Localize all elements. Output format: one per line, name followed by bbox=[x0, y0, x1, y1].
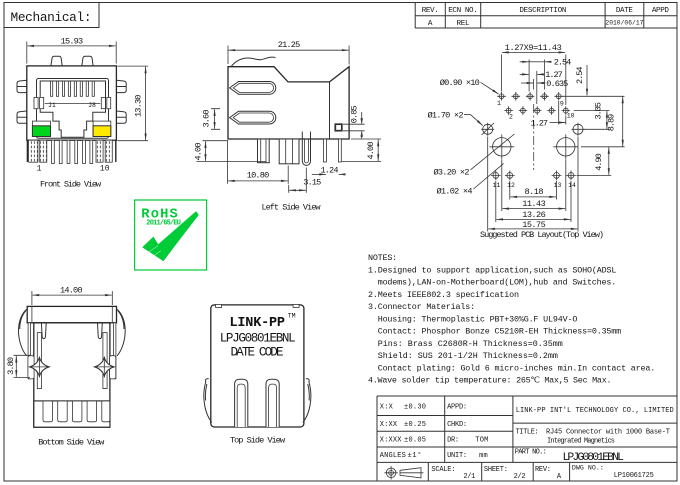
svg-text:0.85: 0.85 bbox=[350, 105, 360, 123]
extension line col1 bbox=[501, 55, 503, 92]
dim 4.00 right line bbox=[377, 140, 379, 162]
svg-text:modems),LAN-on-Motherboard(LOM: modems),LAN-on-Motherboard(LOM),hub and … bbox=[378, 278, 617, 288]
svg-text:UNIT:: UNIT: bbox=[447, 452, 467, 460]
svg-text:X:XX: X:XX bbox=[380, 421, 398, 429]
led pocket right bbox=[93, 121, 111, 136]
svg-text:NOTES:: NOTES: bbox=[368, 253, 397, 263]
svg-text:±0.30: ±0.30 bbox=[404, 403, 426, 411]
front opening bezel bbox=[37, 79, 109, 139]
svg-text:CHKD:: CHKD: bbox=[447, 421, 467, 429]
svg-text:8.18: 8.18 bbox=[525, 187, 544, 197]
svg-text:LPJG0801EBNL: LPJG0801EBNL bbox=[220, 331, 296, 345]
rail left bbox=[37, 333, 41, 389]
svg-text:LP10061725: LP10061725 bbox=[614, 472, 654, 480]
latch prong left inner bbox=[237, 384, 245, 427]
rj45 plug profile opening bbox=[40, 81, 105, 137]
projection symbol cone bbox=[400, 468, 423, 478]
dim 2.54 vertical right bbox=[586, 65, 588, 96]
svg-text:13.30: 13.30 bbox=[133, 95, 143, 118]
svg-text:4.90: 4.90 bbox=[594, 153, 604, 171]
dim 0.635 arrows bbox=[521, 82, 533, 84]
svg-text:DATE CODE: DATE CODE bbox=[231, 346, 284, 360]
projection symbol circle bbox=[384, 466, 397, 479]
small dim cluster extension lines bbox=[529, 60, 544, 105]
right wing curve bbox=[116, 309, 125, 356]
dim 3.60 line bbox=[214, 109, 216, 129]
svg-text:ANGLES: ANGLES bbox=[380, 452, 406, 460]
svg-text:A: A bbox=[428, 20, 433, 28]
svg-text:ECN NO.: ECN NO. bbox=[448, 7, 478, 15]
front body outer shell bbox=[27, 66, 117, 140]
dim 4.00 left extension lines bbox=[197, 141, 267, 162]
svg-text:4.00: 4.00 bbox=[193, 143, 203, 161]
svg-text:REV:: REV: bbox=[535, 466, 551, 474]
svg-text:LPJG0801EBNL: LPJG0801EBNL bbox=[562, 452, 624, 464]
latch prong right outer bbox=[266, 379, 279, 427]
svg-text:11.43: 11.43 bbox=[522, 199, 546, 209]
center line dash dot bbox=[533, 104, 535, 170]
rohs box bbox=[135, 200, 207, 270]
side wing left bbox=[204, 379, 212, 423]
svg-text:Ø0.90 ×10: Ø0.90 ×10 bbox=[440, 78, 480, 88]
big hole 3.20 right bbox=[553, 134, 578, 159]
svg-text:10: 10 bbox=[100, 165, 110, 174]
dim 21.25 line bbox=[229, 49, 349, 51]
comb band bbox=[34, 401, 110, 427]
svg-text:Ø1.02 ×4: Ø1.02 ×4 bbox=[437, 187, 473, 197]
svg-text:2: 2 bbox=[509, 113, 513, 120]
svg-text:13: 13 bbox=[554, 182, 562, 189]
svg-text:2/2: 2/2 bbox=[514, 473, 526, 481]
emi finger wavy line bbox=[231, 57, 275, 66]
svg-text:2.54: 2.54 bbox=[575, 66, 585, 84]
svg-text:LINK-PP: LINK-PP bbox=[230, 316, 286, 331]
svg-text:3.80: 3.80 bbox=[6, 357, 16, 375]
svg-text:LINK-PP INT'L TECHNOLOGY CO.,: LINK-PP INT'L TECHNOLOGY CO., LIMITED bbox=[516, 407, 674, 415]
svg-text:1.24: 1.24 bbox=[321, 165, 339, 175]
bottom view face band bbox=[27, 306, 116, 322]
latch slot 2 inner bbox=[233, 113, 273, 122]
svg-text:X:XXX: X:XXX bbox=[380, 437, 402, 445]
svg-text:Pins: Brass C2680R-H Thicknes: Pins: Brass C2680R-H Thickness=0.35mm bbox=[378, 339, 563, 349]
svg-text:Suggested PCB Layout(Top View): Suggested PCB Layout(Top View) bbox=[480, 230, 604, 240]
standoff block inner lines bbox=[286, 139, 293, 164]
dim 0.85 arrows bbox=[360, 118, 363, 136]
dim 1.27X9=11.43 line bbox=[502, 51, 565, 53]
svg-text:Top Side View: Top Side View bbox=[230, 435, 286, 445]
svg-text:J1: J1 bbox=[48, 102, 56, 109]
svg-text:1: 1 bbox=[37, 165, 42, 174]
extension line col10 bbox=[565, 55, 567, 106]
shield pin knurled 9 10 bbox=[96, 140, 112, 162]
svg-text:21.25: 21.25 bbox=[278, 40, 301, 50]
svg-text:±1°: ±1° bbox=[408, 451, 422, 460]
svg-text:11: 11 bbox=[493, 182, 501, 189]
star post left bbox=[30, 358, 49, 377]
svg-text:Ø1.70 ×2: Ø1.70 ×2 bbox=[428, 110, 464, 120]
dim 13.30 extension lines bbox=[117, 66, 148, 141]
front side wing lower-left bbox=[17, 111, 27, 123]
ground square bbox=[335, 124, 342, 131]
svg-text:TOM: TOM bbox=[475, 437, 488, 445]
left view body outline bbox=[228, 67, 349, 139]
dim 1.27 arrows bbox=[520, 73, 529, 75]
side latch left pair bbox=[34, 97, 38, 108]
dim 14.00 line bbox=[32, 294, 111, 296]
RoHS logo bbox=[135, 200, 207, 270]
svg-text:APPD: APPD bbox=[652, 7, 669, 15]
svg-text:X:X: X:X bbox=[380, 403, 394, 411]
top edge notch left bbox=[216, 304, 222, 307]
svg-text:1.27X9=11.43: 1.27X9=11.43 bbox=[505, 43, 562, 53]
star post left crosshair bbox=[29, 357, 50, 377]
latch prong left outer bbox=[235, 379, 248, 427]
svg-text:3.60: 3.60 bbox=[201, 110, 211, 128]
svg-text:2.54: 2.54 bbox=[554, 58, 572, 68]
star post right bbox=[95, 358, 114, 377]
svg-text:12: 12 bbox=[507, 182, 515, 189]
dim 3.80 line bbox=[15, 356, 17, 377]
svg-text:1: 1 bbox=[497, 100, 501, 107]
bottom holes 1.02 bbox=[491, 171, 576, 181]
svg-text:Ø3.20 ×2: Ø3.20 ×2 bbox=[434, 168, 470, 178]
rail right bbox=[103, 333, 107, 389]
middle pins 3-8 bbox=[52, 140, 93, 163]
rohs checkmark bbox=[142, 211, 199, 261]
svg-text:Bottom Side View: Bottom Side View bbox=[38, 437, 105, 447]
front side wing lower-right bbox=[116, 111, 126, 123]
dim 3.15 extension lines bbox=[289, 168, 307, 193]
svg-text:14.00: 14.00 bbox=[60, 285, 83, 295]
svg-text:DWG NO.:: DWG NO.: bbox=[572, 465, 604, 472]
svg-text:2010/06/17: 2010/06/17 bbox=[605, 20, 643, 27]
checkmark texture lines bbox=[148, 246, 162, 258]
shield pin knurled 1 bbox=[29, 140, 47, 162]
front side view bbox=[17, 36, 148, 189]
emi hairpin pin bbox=[302, 132, 310, 166]
8 contact pins bbox=[51, 81, 95, 96]
svg-text:8.89: 8.89 bbox=[607, 114, 617, 132]
svg-text:PART NO.:: PART NO.: bbox=[515, 449, 547, 457]
left side view bbox=[193, 40, 381, 212]
comb slots bbox=[43, 401, 110, 422]
svg-text:Integrated Magnetics: Integrated Magnetics bbox=[547, 438, 615, 446]
latch slot 1 outer bbox=[230, 82, 276, 95]
title block grid bbox=[377, 396, 677, 481]
svg-text:4.Wave solder tip temperature:: 4.Wave solder tip temperature: 265℃ Max,… bbox=[368, 376, 612, 386]
green LED bbox=[32, 126, 50, 137]
svg-text:10.80: 10.80 bbox=[247, 170, 270, 180]
rev table grid lines bbox=[415, 3, 677, 29]
svg-text:Left Side View: Left Side View bbox=[262, 203, 322, 213]
svg-text:Shield: SUS 201-1/2H Thicknes: Shield: SUS 201-1/2H Thickness=0.2mm bbox=[378, 351, 558, 361]
latch prong right inner bbox=[269, 384, 277, 427]
dim 21.25 extension lines bbox=[228, 46, 349, 65]
hole 1.70 right bbox=[572, 123, 585, 136]
svg-text:DATE: DATE bbox=[616, 7, 633, 15]
svg-text:REL: REL bbox=[457, 20, 470, 28]
svg-text:±0.25: ±0.25 bbox=[404, 421, 426, 429]
Mechanical title box bbox=[4, 3, 99, 28]
top edge notch right bbox=[293, 304, 299, 307]
svg-text:±0.05: ±0.05 bbox=[404, 437, 426, 445]
svg-text:DESCRIPTION: DESCRIPTION bbox=[519, 7, 566, 15]
latch slot 1 inner bbox=[233, 83, 273, 92]
dim 3.60 extension ticks bbox=[211, 109, 220, 130]
notes bbox=[368, 253, 655, 386]
dim 10.80 extension lines bbox=[228, 141, 289, 184]
svg-text:SHEET:: SHEET: bbox=[484, 466, 508, 474]
svg-text:2/1: 2/1 bbox=[463, 473, 475, 481]
dim 15.93 extension lines bbox=[27, 42, 116, 64]
bottom dims extension lines bbox=[488, 137, 578, 232]
svg-text:1.27: 1.27 bbox=[531, 118, 549, 128]
through pin 2 bbox=[338, 139, 341, 162]
slash through left 1.70 hole bbox=[482, 123, 495, 135]
side wing right bbox=[303, 379, 311, 423]
led pocket left bbox=[32, 121, 50, 136]
svg-text:J8: J8 bbox=[88, 102, 96, 109]
svg-text:Contact plating: Gold 6 micro-: Contact plating: Gold 6 micro-inches min… bbox=[378, 363, 656, 373]
front side wing upper-left bbox=[17, 80, 27, 92]
dim 1.24 lines bbox=[312, 173, 326, 175]
side tab left bbox=[28, 356, 34, 379]
top view body bbox=[211, 305, 304, 427]
side pin right bbox=[114, 323, 116, 379]
svg-text:RJ45 Connector with 1000 Base-: RJ45 Connector with 1000 Base-T bbox=[546, 428, 670, 436]
svg-text:15.93: 15.93 bbox=[61, 36, 84, 46]
dim 4.00 right extension lines bbox=[342, 139, 381, 162]
front top tab right bbox=[82, 56, 93, 66]
through pin 1 bbox=[324, 139, 327, 162]
svg-text:14: 14 bbox=[568, 182, 576, 189]
svg-text:2.Meets IEEE802.3 specificatio: 2.Meets IEEE802.3 specification bbox=[368, 290, 519, 300]
upper hole row bbox=[497, 92, 563, 101]
dim 0.85 line bbox=[361, 112, 363, 139]
dim 2.54 line bbox=[520, 61, 529, 63]
svg-text:SCALE:: SCALE: bbox=[431, 466, 455, 474]
dim 15.93 line bbox=[27, 45, 115, 47]
yellow LED bbox=[93, 126, 111, 137]
svg-text:9: 9 bbox=[560, 100, 564, 107]
dim 3.80 extension lines bbox=[14, 355, 31, 377]
svg-text:1.Designed to support applicat: 1.Designed to support application,such a… bbox=[368, 265, 616, 275]
standoff block bbox=[279, 139, 299, 164]
side latch right pair bbox=[101, 97, 105, 108]
latch slot 2 outer bbox=[230, 111, 276, 124]
hole 1.70 left bbox=[481, 123, 494, 136]
front side wing upper-right bbox=[116, 80, 126, 92]
lower hole row bbox=[504, 106, 570, 115]
left wing curve bbox=[18, 309, 27, 356]
bottom view main body bbox=[34, 323, 110, 427]
svg-text:A: A bbox=[557, 473, 562, 481]
svg-text:10: 10 bbox=[567, 113, 575, 120]
svg-text:mm: mm bbox=[479, 452, 488, 460]
svg-text:REV.: REV. bbox=[422, 7, 439, 15]
title block bbox=[377, 396, 677, 481]
big hole 3.20 left bbox=[490, 134, 515, 159]
svg-text:0.635: 0.635 bbox=[546, 79, 568, 89]
dim 10.80 line bbox=[228, 180, 288, 182]
dim 0.85 extension ticks bbox=[343, 124, 365, 131]
svg-text:4.00: 4.00 bbox=[366, 142, 376, 160]
svg-text:2011/65/EU: 2011/65/EU bbox=[146, 220, 181, 228]
rear wall line bbox=[329, 82, 331, 139]
dim 4.00 left line bbox=[205, 141, 207, 161]
bottom side view bbox=[6, 285, 125, 447]
dim 14.00 extension lines bbox=[32, 291, 112, 305]
top side view bbox=[204, 304, 311, 445]
small pin left bbox=[41, 323, 46, 339]
svg-text:13.26: 13.26 bbox=[522, 210, 546, 220]
svg-text:Contact: Phosphor Bonze C5210R: Contact: Phosphor Bonze C5210R-EH Thickn… bbox=[378, 327, 622, 337]
svg-text:TITLE:: TITLE: bbox=[516, 428, 539, 436]
shield side edges bbox=[27, 140, 115, 162]
revision table top right bbox=[415, 3, 677, 29]
plastic post leg bbox=[258, 139, 270, 163]
svg-text:3.Connector Materials:: 3.Connector Materials: bbox=[368, 302, 475, 312]
dim 13.30 line bbox=[145, 67, 147, 141]
svg-text:TM: TM bbox=[288, 312, 296, 319]
side pin left bbox=[28, 323, 30, 379]
dim 3.15 line bbox=[289, 189, 306, 191]
svg-text:DR:: DR: bbox=[447, 437, 459, 445]
extension big hole row right bbox=[581, 146, 625, 148]
extension hole row right bbox=[563, 95, 625, 97]
side tab right bbox=[110, 356, 116, 379]
star post right crosshair bbox=[94, 357, 115, 377]
pcb layout bbox=[428, 43, 625, 240]
svg-text:Front Side View: Front Side View bbox=[40, 179, 102, 189]
front top tab left bbox=[51, 56, 62, 66]
svg-text:Mechanical:: Mechanical: bbox=[11, 10, 92, 25]
small pin right bbox=[98, 323, 103, 339]
contact block separator line bbox=[45, 103, 101, 105]
svg-text:APPD:: APPD: bbox=[447, 403, 467, 411]
svg-text:Housing: Thermoplastic PBT+30%: Housing: Thermoplastic PBT+30%G.F UL94V-… bbox=[378, 314, 578, 324]
face band inner lines bbox=[32, 306, 112, 322]
emi hairpin inner bbox=[304, 139, 308, 163]
